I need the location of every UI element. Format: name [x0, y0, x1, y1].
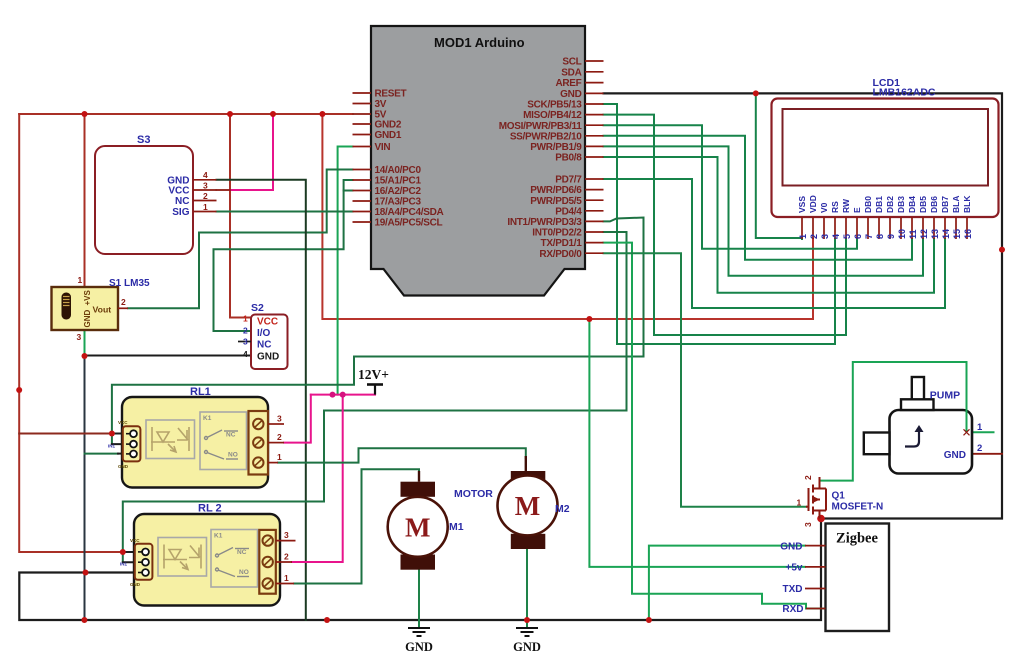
- RL2 input connector: [120, 538, 152, 587]
- svg-text:I/O: I/O: [257, 328, 271, 339]
- svg-text:2: 2: [803, 475, 813, 480]
- junction dot +5 rail / magenta branch: [270, 111, 276, 117]
- svg-text:M1: M1: [449, 521, 464, 533]
- wire RL1 VCC black stub: [112, 433, 132, 435]
- svg-text:Zigbee: Zigbee: [836, 531, 878, 547]
- junction dot VDD rail / Zigbee +5: [586, 316, 592, 322]
- LCD pin stubs: [802, 217, 967, 239]
- svg-text:1: 1: [284, 573, 289, 583]
- svg-text:M: M: [515, 491, 540, 521]
- svg-text:VCC: VCC: [130, 538, 140, 543]
- RL1 optocoupler: [146, 420, 195, 459]
- svg-text:1: 1: [243, 314, 248, 324]
- svg-text:MOSI/PWR/PB3/11: MOSI/PWR/PB3/11: [499, 121, 582, 132]
- wire LCD RS from Arduino pin13: [604, 104, 836, 344]
- svg-text:DB1: DB1: [874, 196, 884, 213]
- wire 12V+ magenta rail: [311, 394, 375, 396]
- wire green GND drop to LCD VSS pin1: [756, 93, 802, 239]
- wire black GND bus: Q1 source down, bottom bus, up-left to RL2 GND pin: [19, 519, 821, 621]
- wire S3 SIG to Arduino A4: [217, 211, 353, 213]
- wire +5V branch down to S2 VCC pin1: [230, 114, 251, 318]
- svg-text:GND: GND: [944, 450, 966, 461]
- module Zigbee: [780, 524, 889, 632]
- svg-text:DB7: DB7: [940, 196, 950, 213]
- RL2 optocoupler: [158, 538, 207, 577]
- svg-text:3: 3: [277, 414, 282, 424]
- RL2 terminal block: [259, 530, 295, 594]
- svg-text:GND: GND: [257, 352, 279, 363]
- wire Zigbee GND drop to ground bus: [649, 546, 805, 620]
- svg-text:18/A4/PC4/SDA: 18/A4/PC4/SDA: [375, 207, 444, 218]
- svg-text:M: M: [405, 513, 430, 543]
- junction dot +5 rail / S1: [82, 111, 88, 117]
- svg-text:2: 2: [243, 326, 248, 336]
- connector S2: [238, 302, 288, 369]
- svg-text:DB2: DB2: [885, 196, 895, 213]
- wire magenta branch from top rail to S3 VCC: [230, 114, 273, 190]
- svg-text:14/A0/PC0: 14/A0/PC0: [375, 165, 422, 176]
- RL1 input connector: [108, 420, 140, 469]
- svg-text:VCC: VCC: [118, 420, 128, 425]
- svg-text:4: 4: [243, 349, 248, 359]
- svg-text:K1: K1: [214, 533, 223, 540]
- wire RL1 GND black stub: [118, 453, 132, 455]
- svg-text:2: 2: [121, 297, 126, 307]
- LCD pin numbers rotated: [798, 229, 973, 239]
- svg-text:2: 2: [277, 432, 282, 442]
- svg-text:S3: S3: [137, 134, 150, 146]
- junction dot 12V node B: [340, 392, 346, 398]
- svg-text:NC: NC: [257, 340, 271, 351]
- wire M1 to ground symbol: [418, 570, 420, 627]
- wire +5V top rail from left riser to Arduino 5V pin: [19, 113, 352, 115]
- svg-text:PUMP: PUMP: [930, 390, 960, 402]
- svg-text:RW: RW: [841, 198, 851, 213]
- wire PD2 to relay RL2 IN: [123, 232, 627, 562]
- wire Arduino A2 tap to A1 vertical: [344, 190, 353, 192]
- wire S2 GND to junction: [85, 355, 252, 357]
- wire LCD DB6 from Arduino pin8: [604, 157, 935, 293]
- wire RL2 VCC black stub: [123, 551, 144, 553]
- svg-text:Vout: Vout: [93, 305, 112, 315]
- svg-text:PWR/PD6/6: PWR/PD6/6: [530, 185, 582, 196]
- junction dot ground bus / Zigbee GND: [646, 617, 652, 623]
- svg-text:17/A3/PC3: 17/A3/PC3: [375, 197, 422, 208]
- svg-text:NC: NC: [226, 432, 236, 439]
- wire S1/S2 GND vertical to ground bus: [84, 356, 86, 620]
- svg-text:SCL: SCL: [562, 57, 581, 68]
- svg-text:7: 7: [864, 234, 874, 239]
- svg-text:SCK/PB5/13: SCK/PB5/13: [527, 100, 582, 111]
- svg-text:1: 1: [203, 202, 208, 212]
- module MOD1 Arduino: [371, 26, 585, 296]
- svg-text:6: 6: [853, 234, 863, 239]
- wire RL2 terminal1 to motor M1: [294, 469, 419, 583]
- svg-text:8: 8: [875, 234, 885, 239]
- svg-text:9: 9: [886, 234, 896, 239]
- svg-text:2: 2: [809, 234, 819, 239]
- display LCD1 LMB162ADC: [772, 77, 999, 217]
- wire RL1 VCC from left +5 riser: [19, 433, 112, 435]
- svg-text:GND: GND: [513, 640, 541, 654]
- ground symbol under M1: [408, 628, 430, 636]
- svg-text:1: 1: [277, 452, 282, 462]
- wire black GND loop: Arduino GND right, down right edge, to Q1 source: [604, 93, 1003, 518]
- svg-text:PD4/4: PD4/4: [555, 206, 582, 217]
- junction dot RL2 GND line: [83, 570, 89, 576]
- svg-text:5: 5: [842, 234, 852, 239]
- transistor Q1 MOSFET-N: [797, 475, 884, 527]
- svg-text:AREF: AREF: [555, 78, 581, 89]
- svg-text:3: 3: [284, 530, 289, 540]
- junction dot on left riser: [16, 387, 22, 393]
- svg-text:GND: GND: [83, 310, 92, 328]
- svg-text:GND: GND: [130, 582, 141, 587]
- svg-text:2: 2: [203, 191, 208, 201]
- svg-text:3V: 3V: [375, 99, 387, 110]
- svg-text:1: 1: [798, 234, 808, 239]
- svg-text:13: 13: [930, 229, 940, 239]
- svg-text:TXD: TXD: [783, 584, 803, 595]
- motor M2: [498, 456, 570, 549]
- svg-text:RS: RS: [830, 201, 840, 213]
- svg-text:PWR/PD5/5: PWR/PD5/5: [530, 196, 582, 207]
- svg-text:TX/PD1/1: TX/PD1/1: [541, 238, 583, 249]
- svg-text:PD7/7: PD7/7: [555, 175, 582, 186]
- wire Arduino A1 to S2 I/O: [214, 180, 353, 331]
- svg-text:RXD: RXD: [782, 604, 803, 615]
- svg-text:V0: V0: [819, 202, 829, 213]
- wire +5V left riser down to RL2 VCC: [19, 114, 123, 552]
- svg-text:3: 3: [77, 332, 82, 342]
- wire LCD DB5 from Arduino pin9: [604, 146, 924, 275]
- svg-text:K1: K1: [203, 415, 212, 422]
- wire LCD DB7 from Arduino pin7: [604, 179, 946, 308]
- svg-text:10: 10: [897, 229, 907, 239]
- junction dot +5 rail / LCD VDD branch: [319, 111, 325, 117]
- WIRES-LAYER: [16, 90, 1005, 627]
- svg-text:VDD: VDD: [808, 195, 818, 213]
- ground symbol under M2: [516, 628, 538, 636]
- svg-text:14: 14: [941, 229, 951, 239]
- svg-text:GND2: GND2: [375, 120, 402, 131]
- svg-text:19/A5/PC5/SCL: 19/A5/PC5/SCL: [375, 218, 443, 229]
- svg-text:S2: S2: [251, 302, 264, 314]
- wire S3 VCC stub to +5 vertical: [217, 189, 231, 191]
- Arduino right pin labels: [499, 57, 582, 260]
- junction dot RL1 VCC/IN: [109, 431, 115, 437]
- svg-text:LMB162ADC: LMB162ADC: [873, 87, 936, 99]
- wire Zigbee +5v from VDD rail: [589, 319, 805, 567]
- svg-text:2: 2: [284, 552, 289, 562]
- pump PUMP: [864, 377, 983, 474]
- svg-text:IN1: IN1: [108, 444, 116, 449]
- svg-text:NC: NC: [237, 549, 247, 556]
- svg-text:INT1/PWR/PD3/3: INT1/PWR/PD3/3: [507, 217, 582, 228]
- junction dot RL2 VCC/IN: [120, 549, 126, 555]
- svg-text:MOSFET-N: MOSFET-N: [832, 502, 884, 513]
- svg-text:2: 2: [977, 443, 982, 454]
- svg-text:1: 1: [977, 422, 983, 433]
- wire PD1 to Zigbee RXD: [604, 243, 826, 609]
- junction dot S1 GND node: [82, 353, 88, 359]
- svg-text:E: E: [852, 207, 862, 213]
- supply symbol 12V+: [358, 367, 389, 395]
- svg-text:SDA: SDA: [561, 67, 581, 78]
- junction dot +5 rail / S2-S3 VCC: [227, 111, 233, 117]
- svg-text:VIN: VIN: [375, 142, 391, 153]
- svg-text:4: 4: [203, 170, 208, 180]
- svg-text:3: 3: [820, 234, 830, 239]
- svg-text:DB0: DB0: [863, 196, 873, 213]
- svg-text:DB5: DB5: [918, 196, 928, 213]
- svg-text:11: 11: [908, 229, 918, 239]
- svg-text:PWR/PB1/9: PWR/PB1/9: [530, 142, 582, 153]
- svg-text:3: 3: [803, 522, 813, 527]
- svg-text:+5v: +5v: [786, 563, 803, 574]
- wire PD3 to relay RL1 IN (via 12V-side route): [112, 218, 644, 445]
- junction dot right edge black wire: [999, 247, 1005, 253]
- svg-text:RX/PD0/0: RX/PD0/0: [539, 249, 582, 260]
- wire RL1 GND to S-GND vertical: [85, 453, 119, 455]
- wire LM35 Vout to Arduino A0: [128, 170, 353, 309]
- svg-text:15/A1/PC1: 15/A1/PC1: [375, 176, 422, 187]
- svg-text:4: 4: [831, 234, 841, 239]
- wire magenta to RL1 terminal2: [284, 395, 311, 443]
- Arduino left pin stubs: [353, 93, 372, 222]
- relay module RL1 body: [108, 386, 284, 488]
- svg-text:NO: NO: [228, 452, 238, 459]
- svg-text:GND: GND: [405, 640, 433, 654]
- wire S1 pin3 stub to GND junction: [84, 330, 86, 356]
- Arduino right pin stubs: [585, 61, 604, 253]
- svg-text:GND: GND: [560, 89, 581, 100]
- wire RL1 terminal1 to motor M2: [278, 448, 526, 462]
- svg-text:3: 3: [243, 337, 248, 347]
- svg-text:S1 LM35: S1 LM35: [109, 278, 150, 289]
- svg-text:VSS: VSS: [797, 196, 807, 213]
- svg-text:+VS: +VS: [83, 289, 92, 305]
- Arduino left pin labels: [375, 89, 444, 229]
- svg-text:MISO/PB4/12: MISO/PB4/12: [523, 110, 582, 121]
- svg-text:16: 16: [963, 229, 973, 239]
- svg-text:M2: M2: [555, 503, 570, 515]
- svg-text:12V+: 12V+: [358, 367, 389, 382]
- relay module RL2 body: [120, 503, 296, 606]
- wire VIN to 12V node: [338, 147, 353, 395]
- junction dot ground bus / M2: [524, 617, 530, 623]
- svg-text:15: 15: [952, 229, 962, 239]
- LCD pin names rotated: [797, 195, 972, 213]
- wire RL2 IN black stub: [123, 561, 144, 563]
- junction dot 12V node A: [330, 392, 336, 398]
- svg-text:1: 1: [797, 498, 802, 508]
- junction dot GND line / LCD VSS: [753, 90, 759, 96]
- wire LCD RW from Arduino pin12: [604, 115, 847, 335]
- svg-text:MOTOR: MOTOR: [454, 488, 493, 500]
- svg-text:MOD1 Arduino: MOD1 Arduino: [434, 35, 525, 50]
- wire PD0 to Q1 gate: [604, 253, 807, 507]
- svg-text:VCC: VCC: [168, 186, 189, 197]
- wire LCD DB4 from Arduino pin10: [604, 136, 913, 260]
- svg-text:GND1: GND1: [375, 130, 402, 141]
- RL2 relay contact section: [211, 530, 258, 588]
- svg-text:GND: GND: [118, 464, 129, 469]
- motor M1: [388, 471, 494, 570]
- wire pump pin1 stub: [972, 431, 994, 433]
- svg-text:PB0/8: PB0/8: [555, 153, 582, 164]
- junction dot ground bus / S-GND vertical: [81, 617, 87, 623]
- svg-text:RL 2: RL 2: [198, 503, 222, 515]
- svg-text:BLK: BLK: [962, 195, 972, 213]
- svg-text:SIG: SIG: [172, 207, 189, 218]
- junction dot ground bus mid: [324, 617, 330, 623]
- wire Q1 drain loop to pump pin1: [821, 362, 967, 481]
- svg-text:SS/PWR/PB2/10: SS/PWR/PB2/10: [510, 131, 582, 142]
- sensor S3 body: [95, 134, 217, 254]
- wire +5V branch down to S1 pin1: [84, 114, 86, 287]
- svg-text:RESET: RESET: [375, 89, 407, 100]
- svg-text:BLA: BLA: [951, 196, 961, 213]
- svg-text:INT0/PD2/2: INT0/PD2/2: [532, 228, 582, 239]
- svg-text:12: 12: [919, 229, 929, 239]
- svg-text:VCC: VCC: [257, 317, 278, 328]
- svg-text:NO: NO: [239, 569, 249, 576]
- svg-text:DB3: DB3: [896, 196, 906, 213]
- RL1 terminal block: [249, 411, 285, 475]
- svg-text:1: 1: [78, 275, 83, 285]
- svg-text:3: 3: [203, 180, 208, 190]
- wire M2 to ground symbol: [526, 549, 528, 627]
- svg-text:RL1: RL1: [190, 386, 211, 398]
- wire magenta to RL2 terminal2: [292, 395, 343, 562]
- svg-text:GND: GND: [780, 541, 802, 552]
- wire RL1 IN black stub: [112, 443, 132, 445]
- wire LCD E from Arduino pin11: [604, 125, 858, 249]
- svg-text:DB6: DB6: [929, 196, 939, 213]
- svg-text:16/A2/PC2: 16/A2/PC2: [375, 186, 422, 197]
- svg-text:NC: NC: [175, 196, 189, 207]
- wire S3 GND down to ground bus: [217, 180, 306, 620]
- svg-text:IN1: IN1: [120, 562, 128, 567]
- junction dot Q1 source: [817, 515, 825, 523]
- RL1 relay contact section: [200, 412, 247, 470]
- svg-text:Q1: Q1: [832, 491, 846, 502]
- wire pump GND stub to right-edge black wire: [972, 453, 1002, 455]
- wire +5V branch down to LCD VDD rail: [322, 114, 813, 319]
- svg-text:DB4: DB4: [907, 196, 917, 213]
- sensor S1 LM35: [52, 275, 151, 342]
